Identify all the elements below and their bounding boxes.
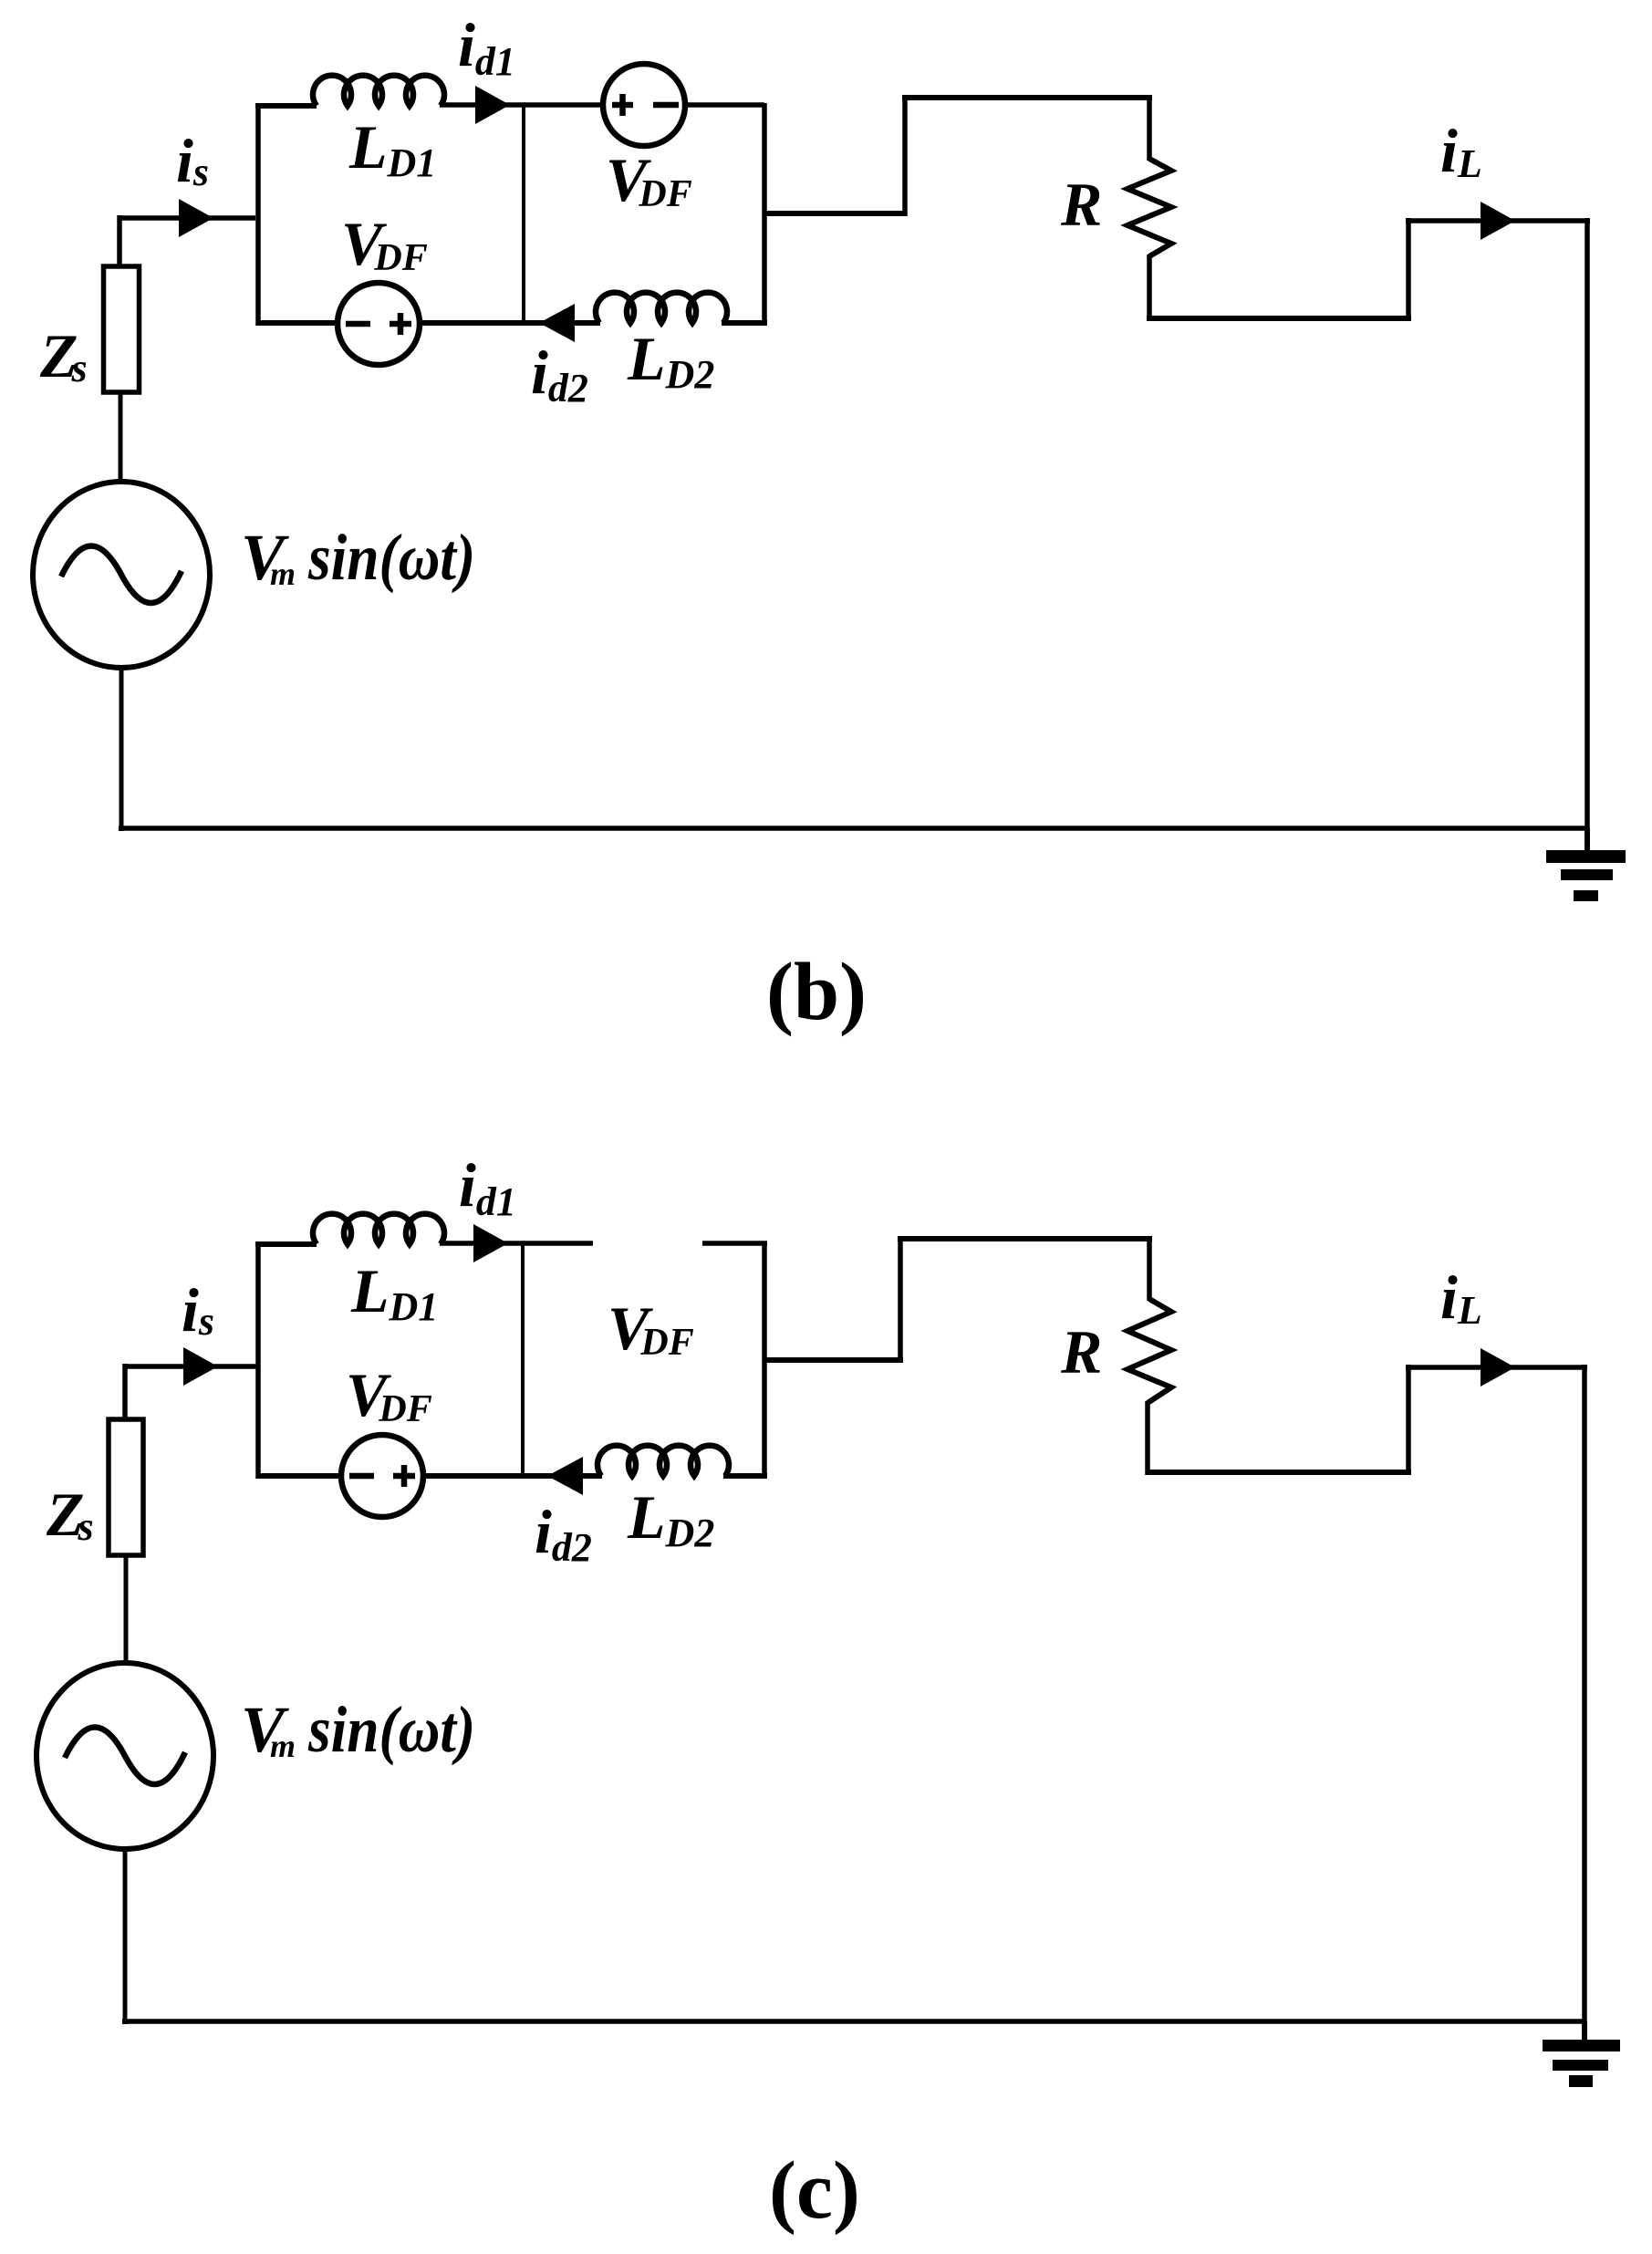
wire junction to VDF top source (b)	[524, 102, 605, 108]
plus sign of VDF bottom (b)	[390, 313, 411, 335]
wire down to R (b)	[1147, 95, 1152, 161]
wire VDF bottom to LD2 (c)	[422, 1473, 602, 1479]
sine symbol (b)	[61, 545, 182, 603]
wire junction to open gap (c)	[523, 1241, 593, 1246]
sine symbol (c)	[65, 1727, 185, 1784]
minus sign of VDF bottom (b)	[346, 321, 370, 327]
wire top run to R (b)	[902, 95, 1152, 100]
wire step up to iL (c)	[1406, 1365, 1411, 1475]
svg-text:R: R	[1060, 1317, 1102, 1387]
svg-text:(b): (b)	[766, 947, 867, 1037]
wire bottom left of loop1 (c)	[258, 1473, 343, 1479]
wire source to bottom rail (c)	[123, 1848, 128, 2024]
voltage source VDF bottom (c)	[341, 1435, 423, 1517]
wire step up to iL (b)	[1406, 218, 1411, 321]
label Vm sin(wt) (c)	[241, 1693, 296, 1766]
svg-text:sin(ωt): sin(ωt)	[307, 1693, 475, 1766]
junction vertical node B (c)	[521, 1241, 525, 1479]
node A left edge of diode loop 1 (b)	[255, 103, 261, 326]
impedance Zs (c)	[109, 1419, 143, 1555]
wire VDF top to right edge (b)	[685, 102, 764, 108]
wire step up (b)	[902, 98, 908, 216]
voltage source VDF top (b)	[603, 64, 685, 146]
wire LD2 to right edge (b)	[722, 320, 767, 326]
wire Zs to source (c)	[124, 1555, 129, 1664]
right edge of diode loop 2 (c)	[762, 1241, 767, 1479]
inductor LD1 (c)	[313, 1214, 444, 1244]
label Vm sin(wt) (b)	[241, 521, 296, 594]
wire Zs to source (b)	[119, 392, 123, 483]
wire top to LD1 (b)	[255, 103, 317, 109]
wire step up (c)	[898, 1239, 903, 1363]
ground (b)	[1546, 828, 1626, 901]
wire bottom rail (b)	[119, 826, 1587, 831]
wire corner above Zs (b)	[117, 215, 122, 268]
wire lower run (b)	[1147, 316, 1411, 321]
wire below R (c)	[1145, 1401, 1150, 1475]
arrow id2 (b)	[539, 304, 575, 342]
right edge of diode loop 2 (b)	[762, 103, 767, 326]
inductor LD1 (b)	[313, 76, 444, 106]
inductor LD2 (b)	[596, 293, 727, 323]
wire VDF bottom to LD2 (b)	[419, 320, 600, 326]
wire top run to R (c)	[898, 1236, 1152, 1241]
ac source Vm sin(wt) (c)	[36, 1663, 213, 1849]
arrow is (b)	[179, 199, 213, 237]
wire is source to node A (c)	[125, 1364, 257, 1369]
resistor R (c)	[1127, 1299, 1171, 1403]
plus sign of VDF top (b)	[612, 94, 633, 116]
wire right edge down (c)	[1582, 1365, 1587, 2024]
wire corner above Zs (c)	[122, 1364, 128, 1421]
wire LD1 to junction (b)	[440, 102, 525, 108]
wire lower run (c)	[1147, 1470, 1411, 1475]
wire LD1 to junction (c)	[440, 1241, 525, 1246]
junction vertical node B (b)	[522, 103, 525, 326]
wire bottom left of loop1 (b)	[258, 320, 339, 326]
wire is source to node A (b)	[119, 215, 255, 221]
arrow iL (c)	[1481, 1348, 1515, 1387]
wire iL run (b)	[1406, 218, 1590, 223]
voltage source VDF bottom (b)	[338, 283, 420, 365]
arrow id2 (c)	[547, 1457, 583, 1495]
wire LD2 to right edge (c)	[723, 1473, 767, 1479]
wire iL run (c)	[1406, 1365, 1587, 1370]
wire loop output (c)	[764, 1357, 903, 1363]
arrow id1 (c)	[473, 1224, 508, 1262]
node A left edge of diode loop 1 (c)	[255, 1241, 261, 1479]
arrow is (c)	[183, 1347, 218, 1386]
wire below R (b)	[1147, 254, 1152, 321]
impedance Zs (b)	[104, 266, 140, 392]
wire loop output (b)	[764, 211, 905, 216]
svg-text:sin(ωt): sin(ωt)	[307, 521, 475, 594]
wire down to R (c)	[1147, 1236, 1152, 1301]
wire gap right stub (c)	[702, 1241, 767, 1246]
arrow iL (b)	[1481, 202, 1515, 240]
svg-text:R: R	[1060, 170, 1102, 239]
resistor R (b)	[1127, 159, 1171, 256]
plus sign of VDF bottom (c)	[393, 1465, 415, 1487]
wire top to LD1 (c)	[255, 1241, 317, 1247]
wire right edge down (b)	[1584, 218, 1590, 831]
ground (c)	[1543, 2021, 1620, 2087]
minus sign of VDF top (b)	[653, 102, 679, 109]
inductor LD2 (c)	[597, 1446, 729, 1476]
minus sign of VDF bottom (c)	[349, 1473, 374, 1480]
wire bottom rail (c)	[122, 2019, 1584, 2024]
svg-text:(c): (c)	[769, 2145, 860, 2236]
ac source Vm sin(wt) (b)	[33, 482, 210, 668]
arrow id1 (b)	[475, 86, 510, 124]
wire source to bottom rail (b)	[119, 667, 124, 831]
